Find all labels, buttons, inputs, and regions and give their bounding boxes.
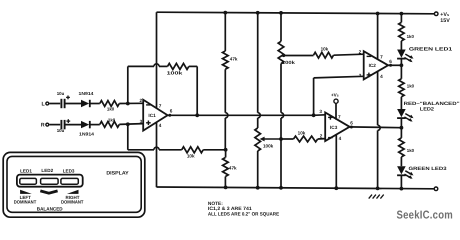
svg-text:SeekIC.com: SeekIC.com: [397, 209, 454, 221]
svg-text:47k: 47k: [230, 57, 238, 62]
svg-text:LED1: LED1: [20, 168, 32, 173]
svg-text:6: 6: [170, 109, 173, 114]
svg-text:7: 7: [380, 54, 383, 59]
svg-text:47k: 47k: [229, 166, 237, 171]
svg-text:2: 2: [320, 133, 323, 138]
svg-text:IC2: IC2: [369, 63, 377, 68]
svg-text:IC1: IC1: [148, 113, 156, 118]
svg-text:3: 3: [319, 109, 322, 114]
svg-text:IC1,2 & 3 ARE 741: IC1,2 & 3 ARE 741: [208, 206, 252, 212]
svg-text:7: 7: [338, 114, 341, 119]
svg-text:3: 3: [140, 119, 143, 124]
svg-text:4: 4: [339, 136, 342, 141]
svg-text:6: 6: [389, 59, 392, 64]
svg-text:10k: 10k: [321, 46, 329, 51]
svg-text:100k: 100k: [167, 71, 183, 76]
svg-text:LED2: LED2: [420, 106, 435, 112]
svg-text:3: 3: [359, 73, 362, 78]
svg-text:L: L: [42, 102, 46, 108]
svg-text:2: 2: [139, 98, 142, 103]
svg-text:GREEN LED1: GREEN LED1: [409, 46, 453, 52]
svg-text:BALANCED: BALANCED: [37, 206, 63, 211]
svg-text:15V: 15V: [440, 18, 450, 24]
svg-text:4: 4: [159, 123, 162, 128]
svg-text:+Vs: +Vs: [331, 93, 339, 98]
svg-text:1k0: 1k0: [407, 148, 415, 153]
svg-text:2: 2: [359, 49, 362, 54]
svg-text:10u: 10u: [57, 128, 65, 133]
svg-text:10k: 10k: [298, 130, 306, 135]
svg-text:7: 7: [159, 103, 162, 108]
svg-text:ALL LEDS ARE 0.2” OR SQUARE: ALL LEDS ARE 0.2” OR SQUARE: [208, 211, 280, 217]
svg-text:1k0: 1k0: [107, 107, 115, 112]
svg-text:DOMINANT: DOMINANT: [61, 199, 84, 204]
svg-text:100k: 100k: [263, 144, 274, 149]
svg-text:R: R: [41, 123, 45, 129]
svg-text:IC3: IC3: [330, 125, 338, 130]
svg-text:4: 4: [380, 74, 383, 79]
svg-text:RED–“BALANCED”: RED–“BALANCED”: [404, 101, 460, 107]
svg-text:LED3: LED3: [63, 168, 75, 173]
svg-text:GREEN LED3: GREEN LED3: [409, 166, 447, 172]
svg-text:DOMINANT: DOMINANT: [14, 199, 37, 204]
svg-text:10u: 10u: [57, 91, 65, 96]
svg-text:10k: 10k: [187, 153, 195, 158]
svg-text:DISPLAY: DISPLAY: [106, 170, 129, 176]
svg-text:1k0: 1k0: [407, 84, 415, 89]
svg-text:1N914: 1N914: [79, 91, 95, 96]
svg-text:LED2: LED2: [41, 168, 53, 173]
svg-text:100k: 100k: [282, 60, 296, 65]
svg-text:1k0: 1k0: [407, 34, 415, 39]
svg-text:6: 6: [350, 120, 353, 125]
svg-text:1k0: 1k0: [108, 117, 116, 122]
svg-text:1N914: 1N914: [79, 132, 95, 137]
